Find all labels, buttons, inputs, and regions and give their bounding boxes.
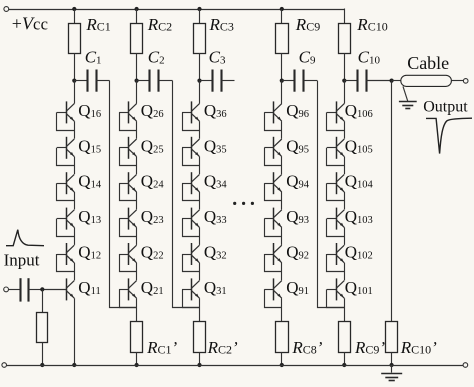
wire: emitter of Q22 to next (136, 263, 138, 281)
wire: collector bus column stage 2 (136, 81, 138, 104)
node: collector bus stage 3 (197, 79, 201, 83)
node: collector bus stage 10 (342, 79, 346, 83)
wire: emitter of Q12 to next (74, 263, 76, 281)
node: collector bus stage 9 (280, 79, 284, 83)
transistor Q96 (264, 101, 282, 123)
capacitor C2 (137, 70, 173, 92)
wire: base-emitter loop of Q36 (183, 112, 200, 130)
terminal: output (463, 79, 468, 84)
wire: input terminal to coupling capacitor (8, 289, 20, 291)
wire: emitter of Q31 down to RC2' (199, 298, 201, 321)
wire: base-emitter loop of Q103 (327, 219, 345, 237)
resistor RC9 (276, 9, 289, 81)
ellipsis: omitted stages (233, 202, 236, 205)
wire: emitter of Q96 to next (281, 121, 283, 139)
transistor Q92 (264, 243, 282, 265)
wire: base-emitter loop of Q33 (183, 219, 200, 237)
transistor Q22 (119, 243, 137, 265)
wire: C1 coupling to stage 2 emitter (110, 81, 137, 308)
wire: base-emitter loop of Q24 (120, 183, 137, 200)
transistor Q106 (327, 101, 345, 123)
cable (coaxial line) (401, 75, 452, 86)
wire: emitter of Q14 to next (74, 192, 76, 210)
wire: C9 coupling to stage 10 emitter (318, 81, 345, 308)
wire: emitter of Q93 to next (281, 227, 283, 245)
transistor Q26 (119, 101, 137, 123)
resistor RC1' (131, 322, 143, 366)
wire: emitter of Q104 to next (344, 192, 346, 210)
wire: base-emitter loop of Q26 (120, 112, 137, 130)
wire: base-emitter loop of Q93 (265, 219, 282, 237)
wire: base-emitter loop of Q101 (327, 289, 345, 307)
wire: collector bus column stage 3 (199, 81, 201, 104)
wire: emitter of Q34 to next (199, 192, 201, 210)
wire: base-emitter loop of Q14 (57, 183, 75, 200)
wire: base-emitter loop of Q96 (265, 112, 282, 130)
wire: base-emitter loop of Q34 (183, 183, 200, 200)
ground: cable shield (399, 102, 417, 109)
wire: base-emitter loop of Q35 (183, 148, 200, 166)
node: ground rail junction column stage 10 (342, 363, 346, 367)
wire: emitter of Q23 to next (136, 227, 138, 245)
wire: emitter of Q24 to next (136, 192, 138, 210)
wire: base-emitter loop of Q104 (327, 183, 345, 200)
terminal: ground rail left (2, 363, 7, 368)
transistor Q25 (119, 137, 137, 159)
terminal: ground rail right (463, 363, 468, 368)
wire: base-emitter loop of Q13 (57, 219, 75, 237)
wire: +Vcc supply rail (9, 9, 345, 11)
wire: ground return rail (7, 365, 464, 367)
node: collector bus stage 1 (72, 79, 76, 83)
transistor Q94 (264, 172, 282, 194)
wire: collector bus column stage 10 (344, 81, 346, 104)
terminal: +Vcc input (4, 7, 9, 12)
transistor Q95 (264, 137, 282, 159)
resistor RC3 (194, 9, 206, 81)
wire: emitter of Q102 to next (344, 263, 346, 281)
resistor RC8' (276, 322, 289, 366)
wire: base-emitter loop of Q102 (327, 254, 345, 272)
capacitor: input coupling (21, 278, 43, 301)
transistor Q103 (327, 208, 345, 230)
transistor Q12 (57, 243, 75, 265)
wire: base-emitter loop of Q16 (57, 112, 75, 130)
transistor Q15 (57, 137, 75, 159)
wire: emitter of Q32 to next (199, 263, 201, 281)
node: rail junction stage 1 (72, 7, 76, 11)
wire: base-emitter loop of Q95 (265, 148, 282, 166)
wire: base-emitter loop of Q15 (57, 148, 75, 166)
wire: base-emitter loop of Q105 (327, 148, 345, 166)
svg-text:Input: Input (4, 250, 40, 269)
wire: collector bus column stage 9 (281, 81, 283, 104)
wire: base-emitter loop of Q12 (57, 254, 75, 272)
node: output junction C10/cable/RC10' (390, 79, 394, 83)
transistor Q102 (327, 243, 345, 265)
wire: emitter of Q11 to ground rail (74, 298, 76, 365)
wire: C2 coupling to stage 3 emitter (173, 81, 200, 308)
resistor RC9' (339, 322, 351, 366)
node: rail junction stage 9 (280, 7, 284, 11)
transistor Q23 (119, 208, 137, 230)
resistor RC1 (69, 9, 81, 81)
node: ground rail junction column stage 9 (280, 363, 284, 367)
wire: emitter of Q13 to next (74, 227, 76, 245)
wire: base-emitter loop of Q31 (183, 289, 200, 307)
ground: earth symbol (381, 374, 402, 381)
wire: base-emitter loop of Q21 (120, 289, 137, 307)
wire: base-emitter loop of Q32 (183, 254, 200, 272)
transistor Q13 (57, 208, 75, 230)
wire: emitter of Q33 to next (199, 227, 201, 245)
capacitor C1 (74, 70, 109, 92)
resistor RC2' (194, 322, 206, 366)
waveform: input trigger pulse (6, 230, 44, 246)
node: RC10' to rail junction (390, 363, 394, 367)
wire: rail corner to RC10 (344, 9, 346, 24)
transistor Q16 (57, 101, 75, 123)
wire: base-emitter loop of Q94 (265, 183, 282, 200)
capacitor C3 (200, 70, 235, 92)
wire: emitter of Q15 to next (74, 157, 76, 175)
wire: output node down to RC10' (391, 81, 393, 322)
transistor Q93 (264, 208, 282, 230)
wire: base-emitter loop of Q92 (265, 254, 282, 272)
capacitor C10 (344, 70, 391, 92)
wire: base-emitter loop of Q91 (265, 289, 282, 307)
svg-text:Output: Output (423, 98, 468, 115)
svg-text:Cable: Cable (407, 53, 449, 73)
transistor Q31 (182, 278, 200, 300)
wire: emitter of Q106 to next (344, 121, 346, 139)
wire: base-emitter loop of Q106 (327, 112, 345, 130)
wire: emitter of Q26 to next (136, 121, 138, 139)
node: ground rail junction column stage 1 (72, 363, 76, 367)
resistor RC2 (131, 9, 143, 81)
node: ground rail junction column stage 3 (197, 363, 201, 367)
wire: rail to earth ground (391, 365, 393, 373)
transistor Q24 (119, 172, 137, 194)
transistor Q35 (182, 137, 200, 159)
node: Q11 base node (40, 287, 44, 291)
resistor RC10 (339, 24, 351, 81)
wire: emitter of Q91 down to RC8' (281, 298, 283, 321)
transistor Q34 (182, 172, 200, 194)
node: rail junction stage 2 (135, 7, 139, 11)
transistor Q91 (264, 278, 282, 300)
transistor Q36 (182, 101, 200, 123)
wire: emitter of Q92 to next (281, 263, 283, 281)
transistor Q105 (327, 137, 345, 159)
wire: base-emitter loop of Q23 (120, 219, 137, 237)
wire: emitter of Q36 to next (199, 121, 201, 139)
transistor Q104 (327, 172, 345, 194)
wire: emitter of Q94 to next (281, 192, 283, 210)
node: ground rail junction column stage 2 (135, 363, 139, 367)
waveform: output negative pulse (426, 118, 472, 153)
wire: emitter of Q21 down to RC1' (136, 298, 138, 321)
transistor Q33 (182, 208, 200, 230)
terminal: trigger input (4, 287, 9, 292)
wire: base-emitter loop of Q22 (120, 254, 137, 272)
capacitor C9 (282, 70, 318, 92)
node: base resistor to rail junction (40, 363, 44, 367)
wire: collector bus column stage 1 (74, 81, 76, 104)
wire: cable to output terminal (451, 80, 463, 82)
resistor: Q11 base bias (37, 289, 48, 365)
transistor Q32 (182, 243, 200, 265)
transistor Q101 (327, 278, 345, 300)
wire: base-emitter loop of Q25 (120, 148, 137, 166)
wire: emitter of Q103 to next (344, 227, 346, 245)
wire: emitter of Q25 to next (136, 157, 138, 175)
transistor Q21 (119, 278, 137, 300)
wire: output node to cable (392, 80, 401, 82)
transistor Q14 (57, 172, 75, 194)
wire: emitter of Q101 down to RC9' (344, 298, 346, 321)
resistor RC10' (386, 322, 398, 366)
svg-text:+Vcc: +Vcc (12, 14, 49, 34)
node: collector bus stage 2 (135, 79, 139, 83)
wire: emitter of Q16 to next (74, 121, 76, 139)
transistor Q11 (42, 278, 74, 300)
wire: emitter of Q95 to next (281, 157, 283, 175)
wire: cable shield to ground (403, 86, 408, 101)
wire: emitter of Q35 to next (199, 157, 201, 175)
node: rail junction stage 3 (197, 7, 201, 11)
wire: emitter of Q105 to next (344, 157, 346, 175)
